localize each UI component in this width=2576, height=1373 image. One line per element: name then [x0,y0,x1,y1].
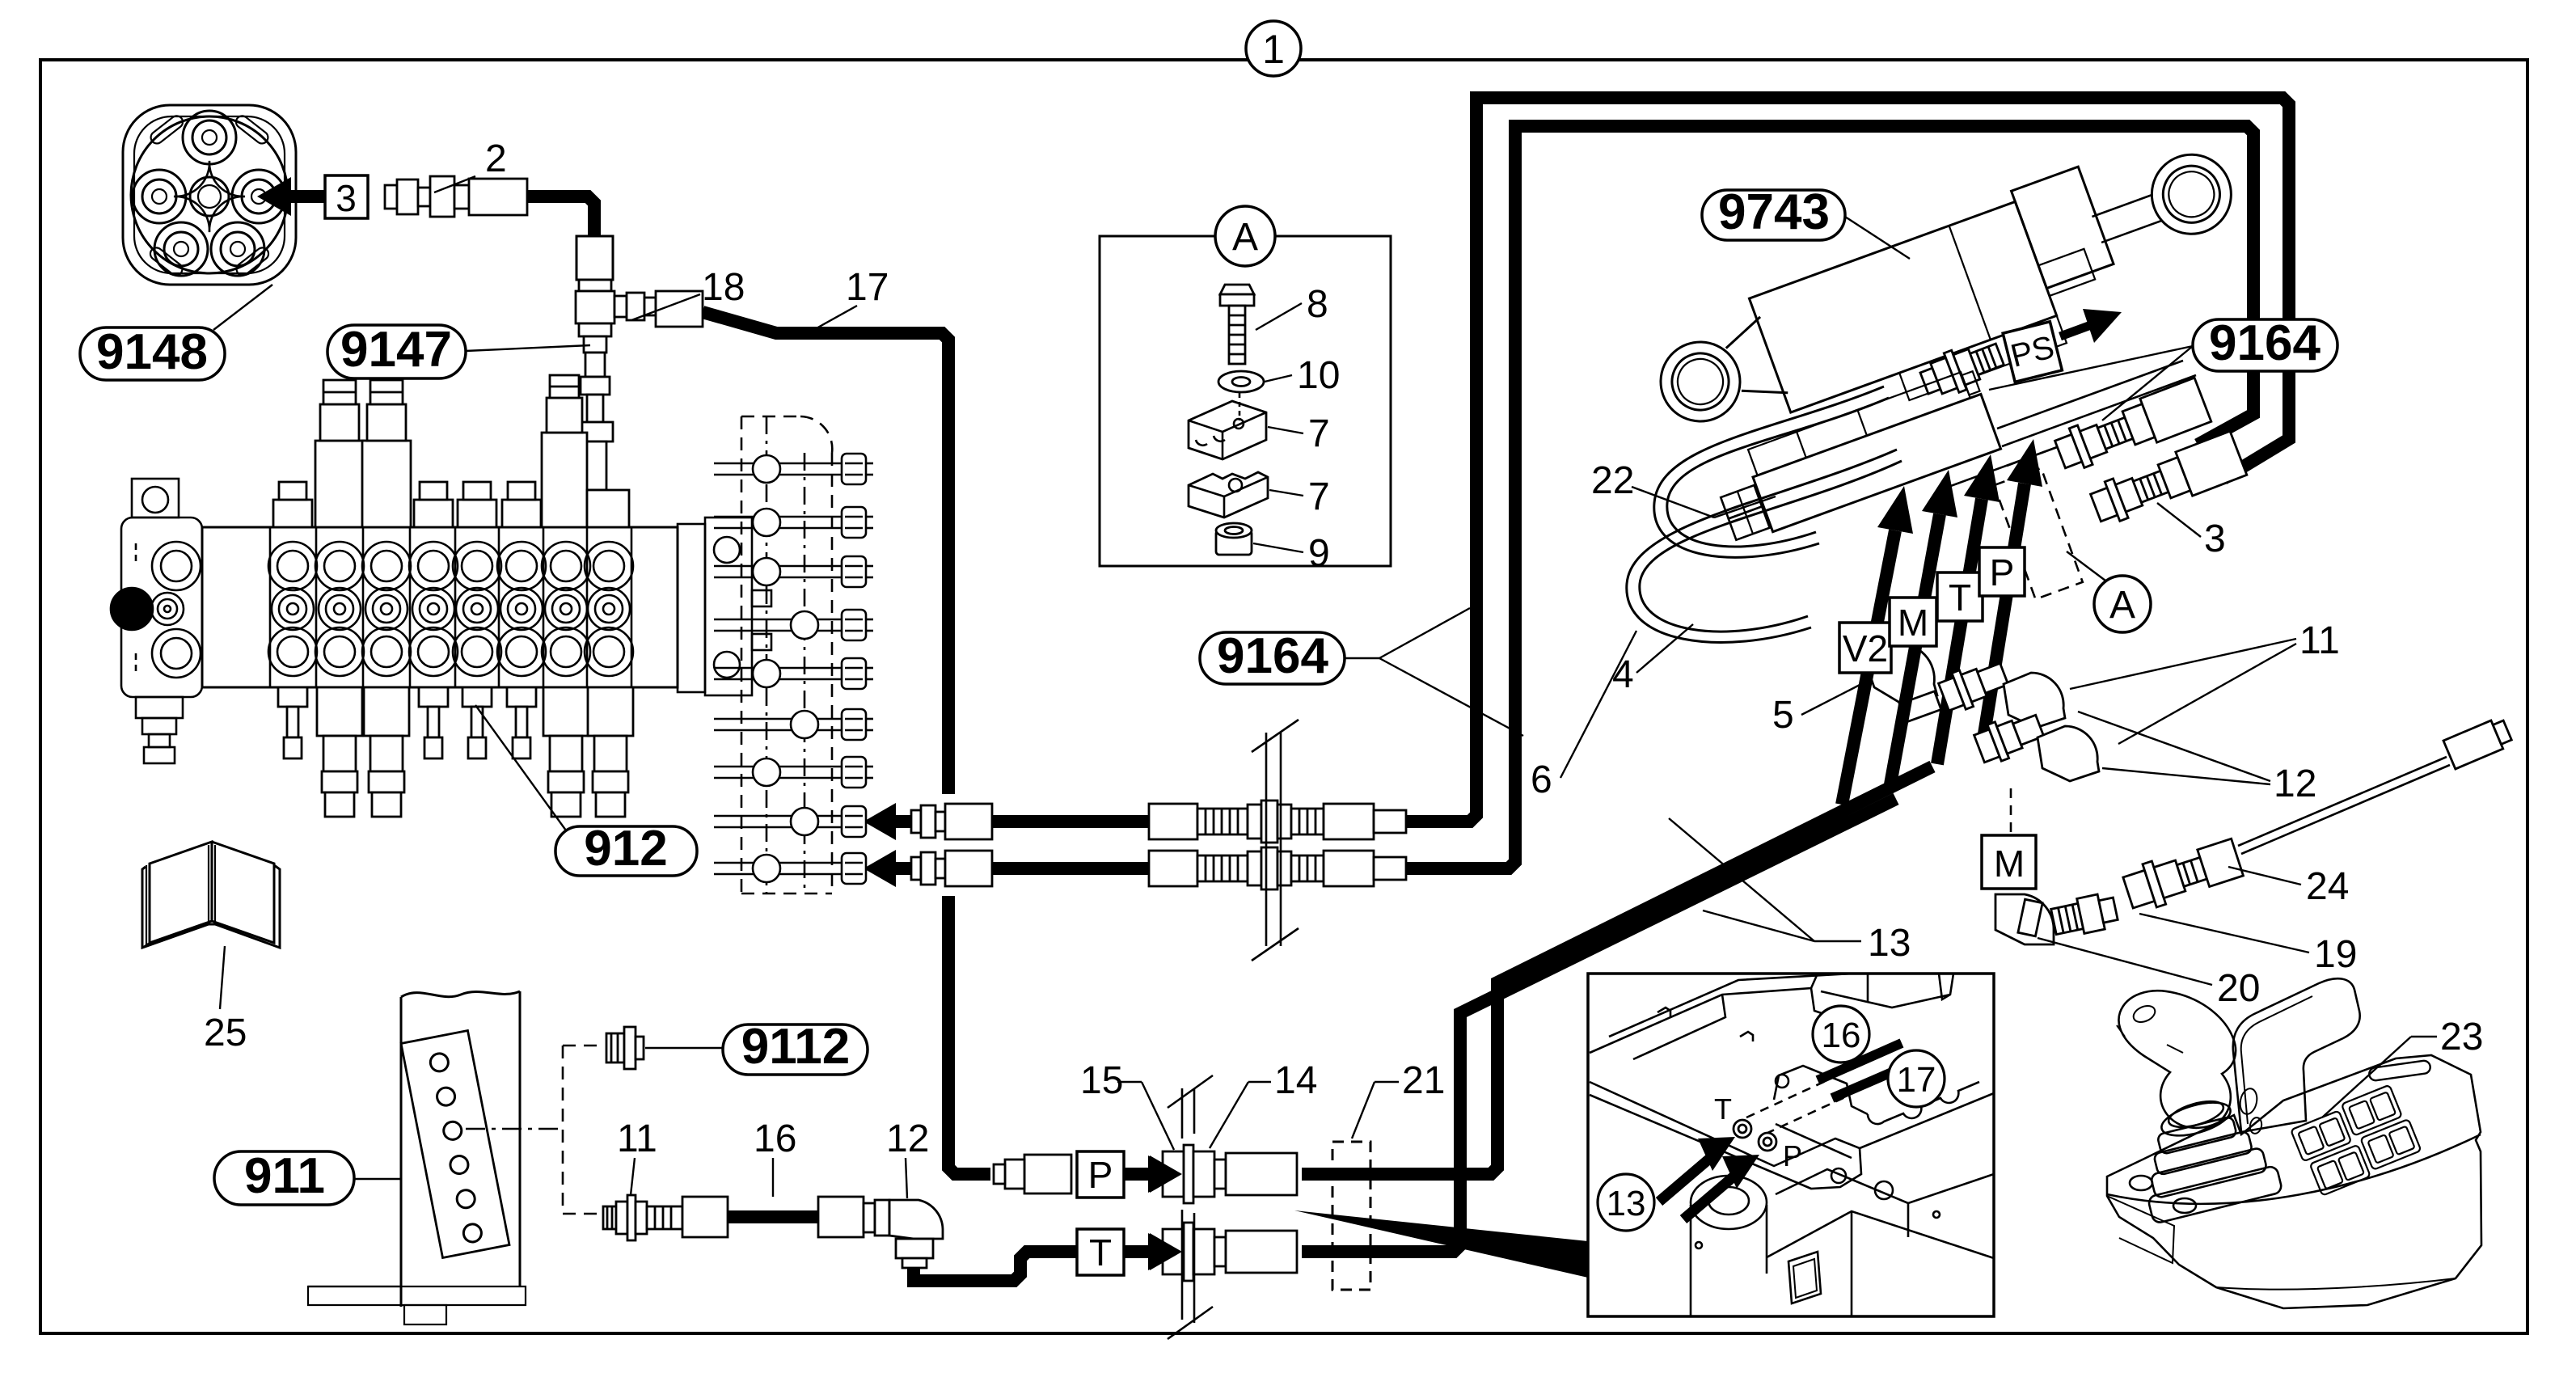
svg-text:P: P [1783,1139,1802,1172]
elbow 5 [1864,644,1941,722]
svg-text:16: 16 [1822,1016,1861,1055]
valve top tall stack section7 [542,375,587,527]
hose B (valve row to cylinder, inner loop) [890,862,1149,875]
hose 16 segment [726,1210,818,1223]
port label boxes [1839,623,1891,673]
hose A (valve row to cylinder, outer loop) [890,815,1149,828]
svg-text:6: 6 [1531,758,1552,801]
svg-text:9147: 9147 [340,322,452,378]
swivel cylinder [1691,1176,1767,1229]
dash-dot line from plate hole [466,1128,563,1130]
valve top caps (small) [273,482,541,527]
arrowhead into valve row 9 [889,862,911,875]
svg-text:14: 14 [1274,1059,1317,1102]
P row fittings at bulkhead [994,1145,1297,1203]
fitting above tee [576,236,613,280]
corner slot BR [234,245,271,277]
hex bolt inner lines [845,463,863,874]
hose P short arrow shaft [1124,1168,1151,1181]
dashed bulkhead panel (outline) [741,416,832,894]
svg-text:1: 1 [1262,27,1285,72]
fitting 19 [2050,891,2118,939]
upper cross member [1658,1008,1670,1017]
hose 13 lower (T line) [1302,799,1896,1252]
main body [202,527,678,687]
svg-text:T: T [1949,577,1971,619]
P port label box [1077,1151,1124,1198]
svg-text:911: 911 [244,1148,325,1204]
elbow 20 [1995,894,2054,944]
arrow 3 into swivel [285,190,365,203]
svg-text:3: 3 [2204,518,2226,560]
svg-text:12: 12 [2274,763,2316,805]
svg-text:12: 12 [886,1117,929,1160]
plug fitting 9112 [606,1027,644,1069]
svg-text:11: 11 [617,1117,657,1160]
svg-text:10: 10 [1297,354,1340,397]
svg-text:P: P [1088,1154,1113,1196]
hose 13 upper (P line to valve block area) [1302,767,1932,1174]
inset balloon 17 [1888,1050,1945,1107]
cylinder 9743 [1638,120,2261,479]
oval label 9743 [1702,190,1845,240]
valve top tall stack section3 [362,380,411,527]
hose 2-to-tee [527,196,594,236]
M label box lower [1982,835,2036,889]
nut 9 [1216,523,1252,555]
tube lines from block to couplings [1949,361,2196,487]
oval label 9164 (left) [1200,608,1523,736]
joystick grip [2118,991,2236,1128]
bellows [2134,1109,2283,1224]
svg-text:912: 912 [584,821,667,877]
scalloped frame edge right [1868,1082,1979,1124]
arrowhead into valve row 8 [889,815,911,828]
callout wedge to inset [1294,1210,1588,1278]
svg-text:21: 21 [1402,1059,1445,1102]
console body outline [2107,1055,2481,1308]
arrowhead P port [1148,1155,1180,1193]
svg-text:T: T [1089,1231,1112,1274]
dashed stub to M [2010,788,2012,833]
svg-text:17: 17 [846,266,889,309]
relief stack bottom-left [136,697,183,718]
svg-text:9164: 9164 [2209,315,2321,371]
port bottom-right [211,222,264,276]
svg-text:9112: 9112 [741,1019,851,1075]
end hex fittings left [1721,485,1762,518]
svg-text:2: 2 [485,137,507,180]
manifold block 22 on cylinder [1708,368,2000,544]
left inlet end cap [121,518,202,697]
head end block [2012,167,2114,288]
clevis at base [1720,317,1788,408]
svg-text:16: 16 [754,1117,796,1160]
bulkhead fitting on cable (item 24 path) [2121,835,2244,914]
svg-text:19: 19 [2314,933,2357,976]
control valve assembly 912 [111,479,771,763]
svg-text:9164: 9164 [1217,628,1328,684]
angled hole plate [401,1030,509,1257]
stem from tee down to valve [577,353,613,490]
oval label 911 [214,1151,354,1205]
clamp bar (long diagonal) [1590,1082,1861,1189]
tee 18 [576,280,703,353]
palm rest fin [2233,978,2360,1132]
valve top fitting section8 (tee stem lands here) [587,490,629,527]
oval label 9147 [327,322,590,378]
bulkhead wall through hoses 8/9 [1252,720,1299,961]
svg-text:3: 3 [336,177,357,219]
svg-text:9: 9 [1308,532,1330,575]
svg-text:A: A [1232,216,1258,259]
joystick console 23 [2107,978,2481,1308]
rod [2092,195,2162,243]
dashed sleeve 21 [1332,1142,1370,1290]
hose 12-to-T run bottom left [914,1252,1077,1281]
arrowhead P (top copy) [1150,1155,1182,1193]
top slot [2368,1060,2430,1081]
oval label 9164 right [2193,319,2337,371]
port bottom-left [154,222,208,276]
port top [183,111,236,164]
inset balloon 13 [1598,1174,1654,1231]
deck bolts [2130,1176,2152,1190]
svg-text:P: P [1990,551,2015,594]
oval label 9148 [80,285,272,380]
lower frame plates [1767,1211,1994,1258]
svg-text:13: 13 [1607,1184,1646,1223]
coupling 9164 upper [2052,378,2211,476]
hose 17 vertical run (tee to P-port) [703,312,948,794]
svg-text:4: 4 [1612,653,1634,696]
svg-text:17: 17 [1897,1060,1936,1100]
bulkhead wall at P/T [1168,1075,1213,1339]
svg-text:11: 11 [2299,619,2340,662]
oval label 912 [475,705,697,877]
inset dashed hose path [1746,1080,1847,1134]
svg-text:20: 20 [2217,967,2260,1010]
port left [133,170,186,223]
svg-text:V2: V2 [1843,627,1888,670]
deck plate top [1609,974,1852,1037]
washer 10 [1218,371,1264,392]
svg-text:9743: 9743 [1718,184,1830,240]
swivel clover web [174,161,245,232]
book 25 (operators manual) [142,842,280,948]
hose loop 4 [1654,387,1889,557]
detail frame A (clamp kit) [1100,236,1391,566]
box label 3 [325,175,368,218]
port arrows V2 M T P [1842,484,2025,805]
fitting on right end of hose 16 + elbow 12 [818,1197,943,1268]
grip collar [2158,1096,2234,1143]
arrowhead T (top copy) [1150,1233,1182,1270]
svg-text:22: 22 [1591,459,1634,502]
rod-end eye [2141,143,2243,245]
svg-text:5: 5 [1772,694,1794,737]
oval label 9112 [723,1024,868,1075]
svg-text:23: 23 [2440,1016,2483,1058]
switch pads [2289,1083,2423,1197]
right end plate + bracket [678,524,705,692]
under-barrel plate [1899,315,2067,400]
svg-text:A: A [2109,584,2135,627]
bracket 911 (mounting post) [308,991,526,1324]
inset arrows to T P [1659,1155,1714,1202]
inset detail box [1588,974,1994,1316]
svg-text:7: 7 [1308,475,1330,518]
port right [232,170,285,223]
dashed connector lines [563,1046,603,1214]
PS label box [2003,322,2062,382]
T P nipples [1734,1120,1776,1151]
detail zone A dashed [1994,468,2083,599]
svg-text:T: T [1714,1092,1732,1126]
hose loop 6 [1627,450,1902,642]
fitting 11 (bulkhead nipple) [603,1195,728,1240]
valve bottom small stems [278,687,536,758]
svg-text:8: 8 [1307,283,1328,326]
svg-text:15: 15 [1080,1059,1123,1102]
inset hose bars 16/17 [1818,1043,1902,1080]
clamp half 7 lower [1189,472,1268,518]
coupling 9164 lower [2088,431,2247,530]
arrowhead T port [1148,1233,1180,1270]
valve spool faces (8 sections) [268,542,633,676]
svg-text:24: 24 [2306,865,2349,908]
svg-text:M: M [1898,602,1928,644]
svg-text:13: 13 [1868,922,1911,965]
corner slot BL [148,245,184,277]
fitting 2 (union on hose to swivel) [385,176,527,217]
hose row 9 fittings [911,847,1406,889]
clamp half 7 upper [1189,401,1266,459]
barrel [1749,201,2056,412]
PS gauge port fitting [1917,335,2008,403]
PS arrow [2060,325,2091,336]
corner slot TL [149,113,185,146]
balloon 1 on top border [1246,21,1301,76]
hose row 8 fittings [911,801,1406,843]
svg-text:18: 18 [702,266,745,309]
corner slot TR [234,113,270,146]
svg-text:7: 7 [1308,412,1330,455]
T port label box [1077,1229,1124,1275]
port center [190,177,229,216]
svg-text:9148: 9148 [96,324,208,380]
valve top tall stack section2 [315,380,364,527]
svg-text:25: 25 [204,1012,247,1054]
fittings cluster above M [1936,656,2099,781]
inset balloon 16 [1813,1006,1869,1062]
swivel joint 9148 (top-left rotary manifold face) [123,105,296,285]
T row fittings at bulkhead [1163,1223,1297,1281]
balloon A right [2094,576,2151,632]
small hatch [1788,1252,1821,1303]
svg-text:M: M [1994,843,2025,885]
panel port rows (bulkhead unions) [714,454,873,884]
bolt 8 [1220,285,1254,364]
base eye [1649,331,1751,433]
valve bottom tall stacks [317,687,633,817]
cable 24 [2238,757,2450,854]
